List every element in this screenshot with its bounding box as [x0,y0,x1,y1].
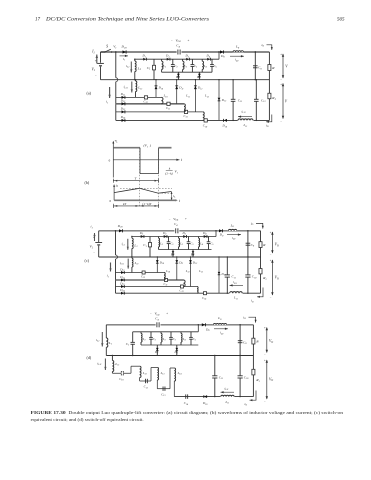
svg-text:−: − [150,312,152,316]
svg-text:+: + [280,53,282,57]
svg-text:VC4: VC4 [173,217,179,222]
svg-text:C3: C3 [190,241,193,246]
svg-text:C4: C4 [174,222,178,227]
svg-text:+: + [270,259,272,263]
svg-text:C0: C0 [251,243,255,248]
svg-text:L0: L0 [230,223,235,228]
svg-text:t: t [179,199,181,203]
svg-text:V1: V1 [113,45,116,50]
svg-text:i1: i1 [106,100,108,105]
svg-text:+: + [270,230,272,234]
svg-text:−: − [270,295,272,299]
svg-text:R1: R1 [255,378,259,383]
svg-text:L2: L2 [142,337,147,342]
svg-text:+: + [166,312,168,316]
svg-text:I1: I1 [91,50,95,55]
svg-text:(V1: (V1 [144,144,149,149]
svg-text:C10: C10 [203,124,208,129]
svg-text:C5: C5 [214,64,218,69]
svg-text:D3: D3 [182,231,187,236]
svg-text:−: − [270,252,272,256]
svg-text:L11: L11 [233,296,238,301]
svg-text:C2: C2 [153,337,157,342]
svg-text:+: + [95,59,97,63]
svg-text:iL11: iL11 [224,386,228,391]
svg-text:C2: C2 [170,241,174,246]
svg-text:(d): (d) [87,355,92,360]
svg-text:L10: L10 [163,94,169,99]
svg-text:L12: L12 [185,269,191,274]
svg-text:−: − [264,352,266,356]
svg-text:C11: C11 [238,98,242,103]
svg-text:i1: i1 [107,274,109,279]
svg-text:L13: L13 [160,371,166,376]
svg-text:565: 565 [337,18,345,23]
svg-text:D1: D1 [139,231,143,236]
svg-text:L11: L11 [114,362,119,367]
svg-text:(c): (c) [85,258,90,263]
svg-text:−: − [171,38,173,42]
svg-text:C1: C1 [147,66,151,71]
svg-text:L14: L14 [177,371,183,376]
svg-text:L0: L0 [217,316,222,321]
svg-text:D11: D11 [178,86,183,91]
svg-text:D11: D11 [178,260,183,265]
svg-text:VO: VO [275,243,279,248]
svg-text:iL1: iL1 [126,64,129,69]
svg-text:L12: L12 [204,94,210,99]
svg-text:C1: C1 [126,342,130,347]
svg-text:D12: D12 [197,86,203,91]
svg-text:L3: L3 [179,241,183,246]
svg-text:D0: D0 [219,233,224,238]
svg-text:C12: C12 [141,275,146,280]
svg-text:+: + [264,359,266,363]
svg-text:L2: L2 [162,64,167,69]
svg-text:D4: D4 [206,54,211,59]
svg-text:L11: L11 [134,261,139,266]
svg-text:iL0: iL0 [232,236,236,241]
svg-text:D20: D20 [121,45,128,50]
svg-text:iL11: iL11 [123,85,127,90]
svg-text:L11: L11 [185,94,190,99]
svg-text:L11: L11 [243,123,248,128]
svg-text:R: R [262,243,266,247]
svg-text:V: V [285,65,288,69]
svg-text:C4: C4 [176,44,180,49]
svg-text:C2: C2 [174,64,178,69]
svg-text:V1: V1 [175,170,178,175]
svg-text:V: V [285,100,288,104]
svg-text:V1: V1 [90,245,93,250]
svg-text:iL: iL [173,194,176,199]
svg-text:C1: C1 [143,243,147,248]
svg-text:D2: D2 [165,54,170,59]
svg-text:(b): (b) [85,180,90,185]
svg-text:0: 0 [110,199,112,203]
svg-text:iO: iO [243,315,246,320]
svg-text:+: + [188,38,190,42]
svg-text:t: t [181,158,183,162]
svg-text:VO: VO [269,377,273,382]
svg-text:iO: iO [262,43,265,48]
svg-text:i1: i1 [123,57,125,62]
svg-text:iO: iO [266,123,269,128]
svg-text:D1: D1 [142,54,147,59]
svg-text:+: + [280,82,282,86]
svg-text:k: k [169,166,171,170]
svg-text:iL1: iL1 [121,242,124,247]
svg-text:D4: D4 [202,231,207,236]
svg-text:L4: L4 [203,64,208,69]
svg-text:+: + [93,236,95,240]
svg-text:D10: D10 [222,124,228,129]
svg-text:L0: L0 [235,45,240,50]
svg-text:iL0: iL0 [220,331,224,336]
svg-text:D22: D22 [120,98,126,103]
svg-text:FIGURE 17.30 Double output Lu: FIGURE 17.30 Double output Luo quadruple… [31,410,344,415]
svg-text:D24: D24 [120,115,126,120]
svg-text:D13: D13 [221,272,226,277]
svg-text:V1: V1 [92,67,96,72]
svg-text:−: − [264,399,266,403]
svg-text:C5: C5 [193,337,196,342]
svg-text:iL11: iL11 [97,361,101,366]
svg-text:17: 17 [35,18,41,23]
svg-text:−: − [280,119,282,123]
svg-text:L3: L3 [183,64,188,69]
svg-text:DC/DC Conversion Technique and: DC/DC Conversion Technique and Nine Seri… [45,17,209,23]
svg-text:L1: L1 [108,341,112,346]
svg-text:C13: C13 [180,289,184,294]
svg-text:iL11: iL11 [233,280,237,285]
svg-text:L1: L1 [137,66,141,71]
svg-text:C13: C13 [184,114,189,119]
svg-text:C10: C10 [252,275,257,280]
svg-text:C10: C10 [119,377,124,382]
svg-text:C11: C11 [232,275,236,280]
svg-text:VO: VO [269,339,273,344]
svg-text:): ) [149,144,152,148]
svg-text:D20: D20 [117,224,124,229]
svg-text:iO: iO [251,221,254,226]
svg-text:(1−k)T: (1−k)T [142,202,151,206]
svg-text:(a): (a) [87,91,92,96]
svg-text:iL0: iL0 [235,58,239,63]
svg-text:vL: vL [115,139,119,144]
svg-text:D10: D10 [159,260,165,265]
svg-text:C4: C4 [155,317,159,322]
svg-text:C10: C10 [244,375,249,380]
svg-text:T: T [135,177,138,181]
svg-text:C12: C12 [144,385,149,390]
svg-text:C3: C3 [173,337,176,342]
svg-text:VO: VO [275,276,279,281]
svg-text:+: + [264,326,266,330]
svg-text:L1: L1 [133,243,137,248]
svg-text:iL: iL [116,183,119,188]
svg-text:L4: L4 [182,337,186,342]
svg-text:iL11: iL11 [241,109,245,114]
svg-text:D2: D2 [162,231,167,236]
svg-text:0: 0 [109,158,111,162]
svg-text:L4: L4 [199,241,203,246]
svg-text:−: − [169,217,171,221]
svg-text:L2: L2 [159,241,164,246]
svg-text:C11: C11 [219,375,223,380]
svg-text:i1: i1 [91,225,93,230]
svg-text:C0: C0 [258,66,262,71]
svg-text:+: + [185,217,187,221]
svg-text:C14: C14 [184,401,189,406]
svg-text:R1: R1 [262,276,266,281]
svg-text:iL1: iL1 [96,338,99,343]
svg-text:D23: D23 [120,107,126,112]
svg-text:D2: D2 [170,252,175,257]
svg-text:−: − [93,251,95,255]
svg-text:iL11: iL11 [120,261,124,266]
svg-text:C13: C13 [161,392,166,397]
svg-text:L13: L13 [198,269,203,274]
svg-text:iO: iO [245,402,248,407]
svg-text:D24: D24 [119,288,124,293]
svg-text:VC4: VC4 [176,38,182,43]
svg-text:(1−k): (1−k) [165,171,172,175]
svg-text:L10: L10 [165,269,171,274]
svg-text:C12: C12 [261,98,266,103]
svg-text:iO: iO [251,299,254,304]
svg-text:R1: R1 [271,96,275,101]
svg-text:−: − [280,77,282,81]
svg-text:L11: L11 [137,86,142,91]
svg-text:D23: D23 [119,281,124,286]
svg-text:C11: C11 [166,106,170,111]
svg-text:D0: D0 [205,327,210,332]
svg-text:L12: L12 [142,371,148,376]
svg-text:equivalent circuit; and (d) sw: equivalent circuit; and (d) switch-off e… [31,417,144,422]
svg-text:C3: C3 [194,64,198,69]
svg-text:C0: C0 [243,340,247,345]
svg-text:D10: D10 [202,401,208,406]
svg-text:kT: kT [123,202,126,206]
svg-text:D3: D3 [185,54,190,59]
svg-text:C5: C5 [210,241,213,246]
svg-text:C14: C14 [202,296,207,301]
svg-text:L3: L3 [162,337,166,342]
svg-text:D21: D21 [119,267,124,272]
svg-text:D12: D12 [192,260,198,265]
svg-text:D13: D13 [221,98,227,103]
svg-text:D21: D21 [120,92,125,97]
svg-text:S: S [106,45,108,49]
svg-text:R: R [271,66,275,70]
svg-text:L11: L11 [225,400,230,405]
svg-text:D0: D0 [220,54,225,59]
svg-text:D10: D10 [158,86,164,91]
svg-text:−: − [95,74,97,78]
svg-text:C11: C11 [164,282,168,287]
svg-text:R: R [255,339,259,343]
